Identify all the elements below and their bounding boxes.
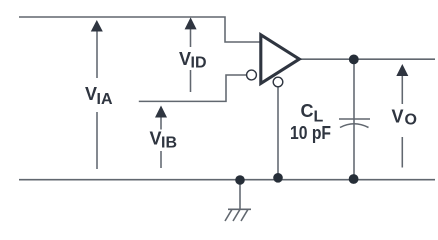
svg-text:10 pF: 10 pF bbox=[290, 123, 331, 143]
svg-text:V: V bbox=[392, 107, 404, 127]
svg-text:IB: IB bbox=[161, 134, 177, 151]
svg-text:O: O bbox=[405, 112, 417, 129]
svg-text:V: V bbox=[150, 129, 162, 149]
svg-text:V: V bbox=[179, 49, 191, 69]
svg-text:IA: IA bbox=[97, 91, 113, 108]
svg-text:V: V bbox=[85, 84, 97, 104]
svg-text:C: C bbox=[301, 101, 314, 121]
svg-text:ID: ID bbox=[191, 55, 207, 72]
